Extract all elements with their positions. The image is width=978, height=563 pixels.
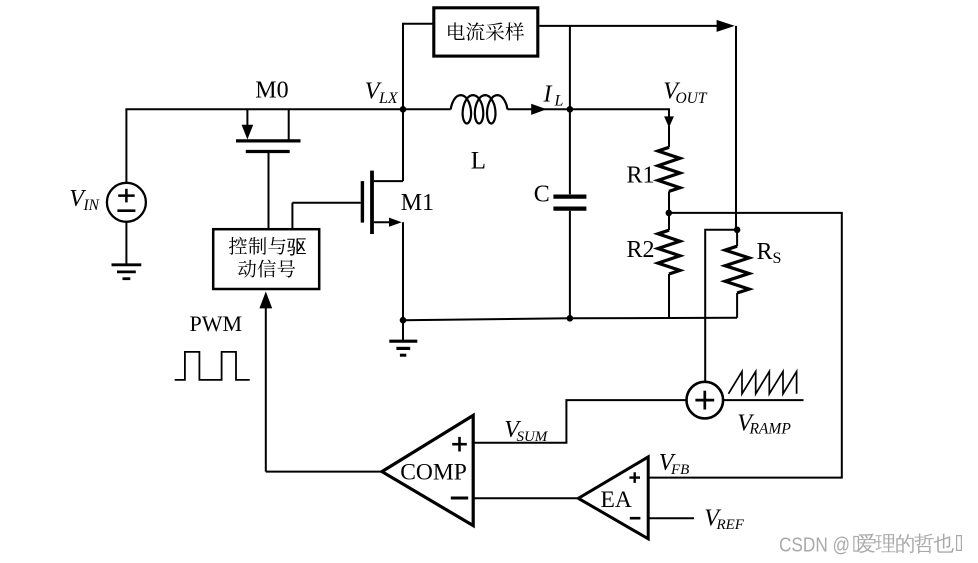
svg-text:L: L [471, 148, 486, 175]
svg-text:M1: M1 [401, 190, 434, 216]
svg-text:C: C [534, 182, 550, 208]
svg-text:R2: R2 [627, 237, 655, 263]
svg-text:EA: EA [601, 487, 632, 513]
svg-text:CSDN @: CSDN @ [779, 534, 850, 557]
svg-text:M0: M0 [255, 78, 288, 104]
svg-text:R1: R1 [627, 162, 655, 188]
svg-text:PWM: PWM [190, 311, 243, 336]
svg-text:COMP: COMP [400, 460, 467, 486]
